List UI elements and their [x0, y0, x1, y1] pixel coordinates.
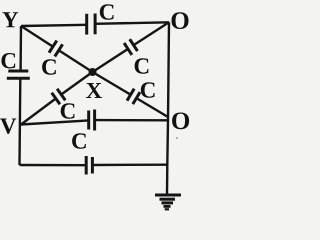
- wire diagonal X to O-top: upper segment: [134, 22, 169, 45]
- ground bar 3: [162, 201, 174, 204]
- node Y label: [2, 12, 18, 27]
- label C lower-left diagonal: [61, 103, 75, 118]
- wire middle: V to capacitor: [21, 120, 89, 124]
- node V label: [0, 118, 16, 133]
- capacitor C-lower-right plate A: [127, 89, 134, 101]
- capacitor C-top right plate: [94, 14, 97, 35]
- wire right rail: O corner to ground stem: [167, 22, 169, 194]
- capacitor C-upper-right plate B: [130, 39, 138, 51]
- wire diagonal X to V: upper segment: [61, 72, 92, 95]
- wire left rail lower: capacitor to bottom-left corner: [18, 78, 21, 165]
- wire top: Y corner to capacitor: [21, 25, 87, 26]
- ground bar 2: [160, 198, 176, 201]
- capacitor C-middle left plate: [87, 111, 90, 130]
- capacitor bottom left plate: [85, 156, 88, 175]
- node O top label: [172, 12, 189, 29]
- wire diagonal X to O-top: lower segment: [93, 49, 129, 72]
- wire diagonal X to O-bottom: upper segment: [93, 72, 131, 95]
- label C left: [1, 53, 15, 68]
- label C middle wire: [72, 133, 86, 148]
- node X junction dot: [89, 68, 97, 76]
- ground bar 5: [165, 208, 169, 210]
- label C upper-right diagonal: [135, 58, 149, 73]
- scan speck below O bottom: [176, 137, 178, 139]
- capacitor C-left bottom plate: [7, 77, 30, 80]
- label C top: [100, 4, 114, 19]
- node O bottom label: [172, 112, 189, 129]
- wire bottom: left corner to capacitor: [20, 164, 87, 167]
- ground bar 1: [155, 194, 181, 197]
- capacitor C-lower-left plate A: [57, 89, 65, 100]
- wire diagonal Y to X: upper segment: [21, 26, 53, 47]
- label C lower-right diagonal: [141, 82, 155, 97]
- wire bottom: capacitor to right rail: [92, 163, 167, 166]
- capacitor C-top left plate: [85, 14, 88, 35]
- wire left rail upper: Y corner to capacitor: [19, 26, 22, 71]
- capacitor C-left top plate: [8, 70, 28, 73]
- label C upper-left diagonal: [42, 59, 56, 74]
- ground bar 4: [164, 205, 171, 208]
- node X label: [86, 83, 102, 98]
- wire diagonal X to O-bottom: lower segment: [136, 98, 168, 117]
- capacitor C-middle right plate: [93, 110, 96, 131]
- wire diagonal X to V: lower segment: [21, 99, 56, 125]
- capacitor C-lower-left plate B: [52, 93, 60, 104]
- wire top: capacitor to O corner: [95, 22, 169, 24]
- capacitor C-upper-right plate A: [124, 43, 132, 55]
- capacitor C-upper-left plate A: [49, 41, 57, 53]
- wire diagonal Y to X: lower segment: [59, 50, 93, 72]
- capacitor C-lower-right plate B: [133, 92, 140, 104]
- capacitor bottom right plate: [91, 157, 94, 174]
- wire middle: capacitor to right rail: [95, 119, 168, 122]
- capacitor C-upper-left plate B: [55, 44, 63, 56]
